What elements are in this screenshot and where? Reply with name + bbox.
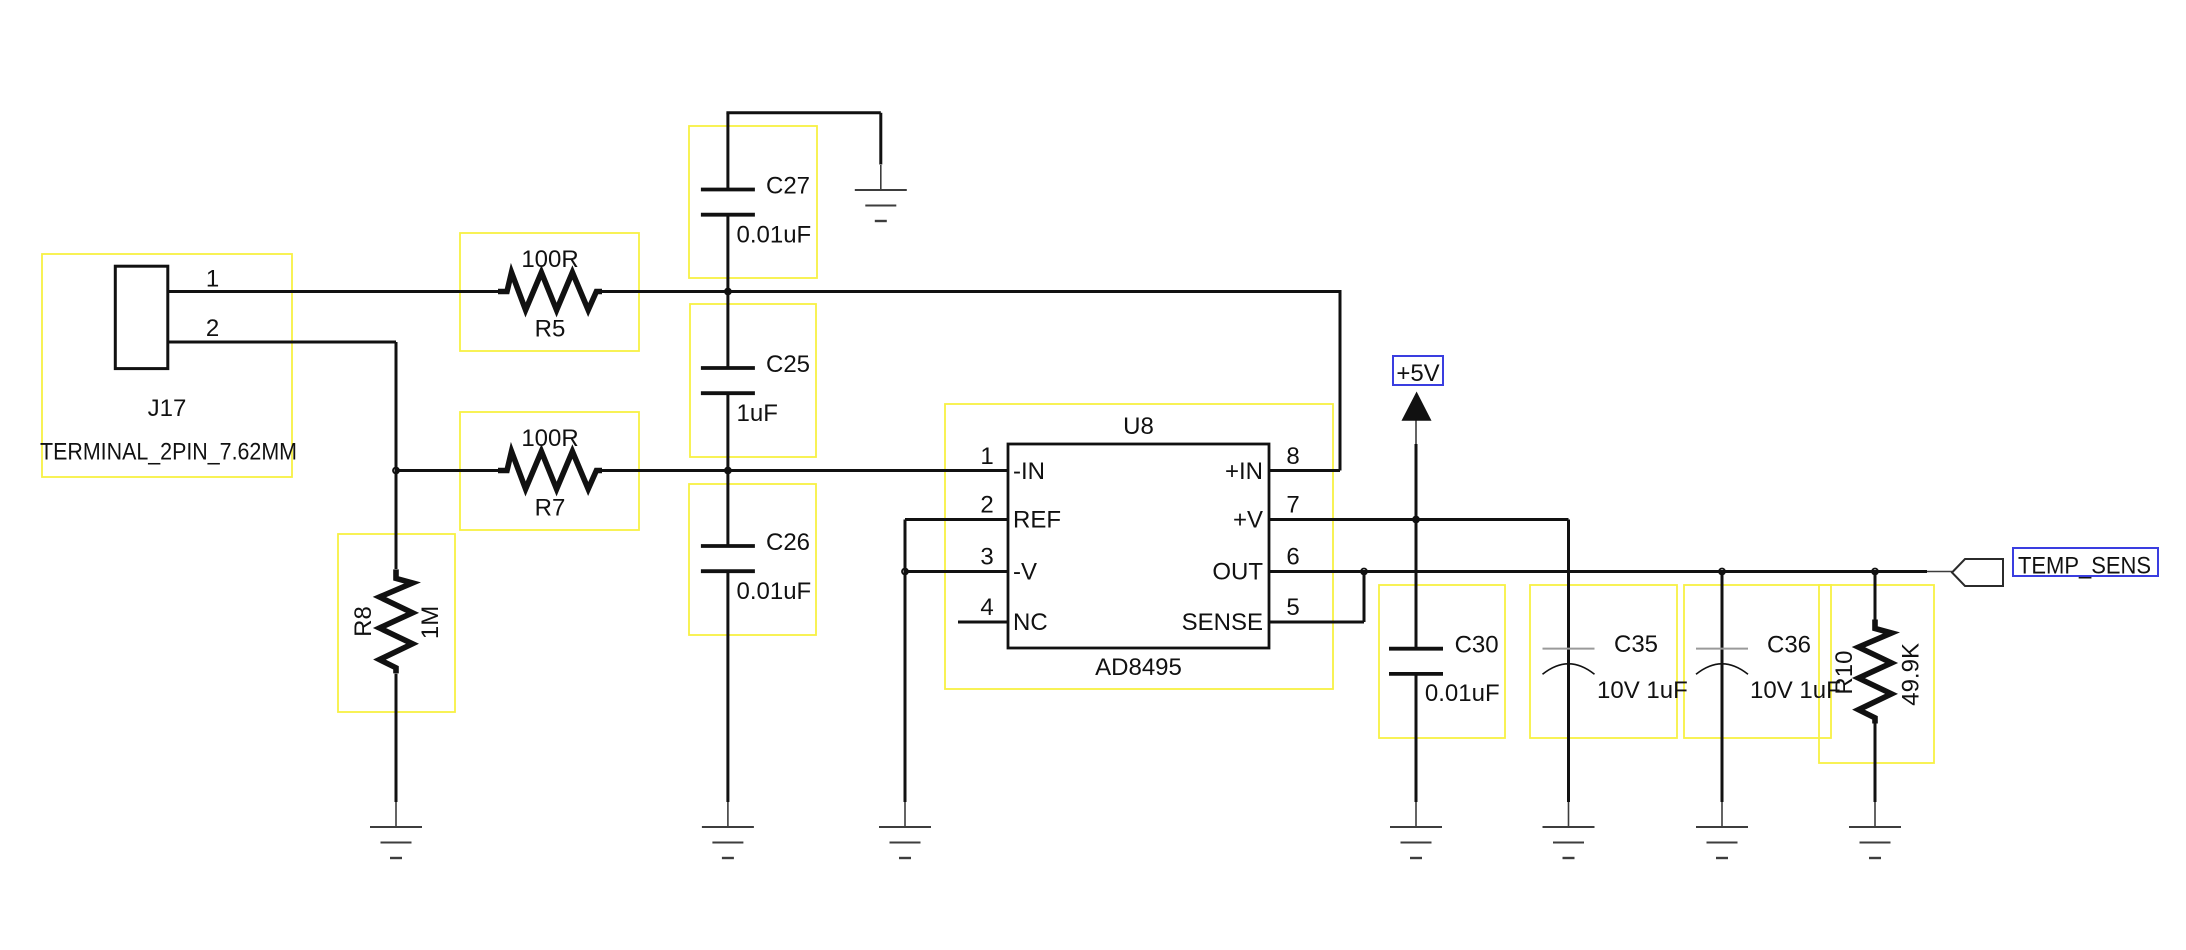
svg-text:C36: C36 (1767, 631, 1811, 658)
svg-text:J17: J17 (148, 395, 187, 422)
svg-text:4: 4 (980, 594, 993, 621)
svg-text:TEMP_SENS: TEMP_SENS (2018, 553, 2151, 580)
svg-text:U8: U8 (1123, 413, 1154, 440)
svg-text:10V 1uF: 10V 1uF (1750, 677, 1841, 704)
svg-text:SENSE: SENSE (1182, 609, 1263, 636)
svg-text:2: 2 (206, 315, 219, 342)
svg-text:REF: REF (1013, 507, 1061, 534)
svg-text:R7: R7 (535, 495, 566, 522)
svg-text:C26: C26 (766, 529, 810, 556)
svg-text:1uF: 1uF (737, 400, 778, 427)
svg-text:+IN: +IN (1225, 458, 1263, 485)
svg-text:5: 5 (1286, 594, 1299, 621)
svg-text:2: 2 (980, 492, 993, 519)
svg-text:R8: R8 (350, 606, 377, 637)
svg-text:C35: C35 (1614, 631, 1658, 658)
svg-text:0.01uF: 0.01uF (1425, 680, 1500, 707)
svg-text:R5: R5 (535, 316, 566, 343)
svg-text:+5V: +5V (1396, 360, 1439, 387)
svg-text:OUT: OUT (1212, 559, 1263, 586)
svg-text:R10: R10 (1831, 651, 1858, 695)
svg-text:0.01uF: 0.01uF (737, 578, 812, 605)
svg-text:NC: NC (1013, 609, 1048, 636)
svg-text:1: 1 (980, 443, 993, 470)
svg-text:TERMINAL_2PIN_7.62MM: TERMINAL_2PIN_7.62MM (40, 439, 297, 466)
svg-text:100R: 100R (521, 246, 578, 273)
svg-text:C25: C25 (766, 351, 810, 378)
svg-text:10V 1uF: 10V 1uF (1597, 677, 1688, 704)
svg-text:C27: C27 (766, 173, 810, 200)
svg-text:7: 7 (1286, 492, 1299, 519)
svg-text:100R: 100R (521, 425, 578, 452)
svg-text:C30: C30 (1455, 631, 1499, 658)
svg-text:1M: 1M (417, 606, 444, 639)
svg-text:3: 3 (980, 544, 993, 571)
svg-text:6: 6 (1286, 544, 1299, 571)
svg-text:1: 1 (206, 265, 219, 292)
svg-text:AD8495: AD8495 (1095, 654, 1182, 681)
svg-text:-V: -V (1013, 559, 1037, 586)
svg-text:49.9K: 49.9K (1898, 643, 1925, 706)
svg-text:8: 8 (1286, 443, 1299, 470)
svg-text:+V: +V (1233, 507, 1263, 534)
svg-text:-IN: -IN (1013, 458, 1045, 485)
svg-text:0.01uF: 0.01uF (737, 222, 812, 249)
